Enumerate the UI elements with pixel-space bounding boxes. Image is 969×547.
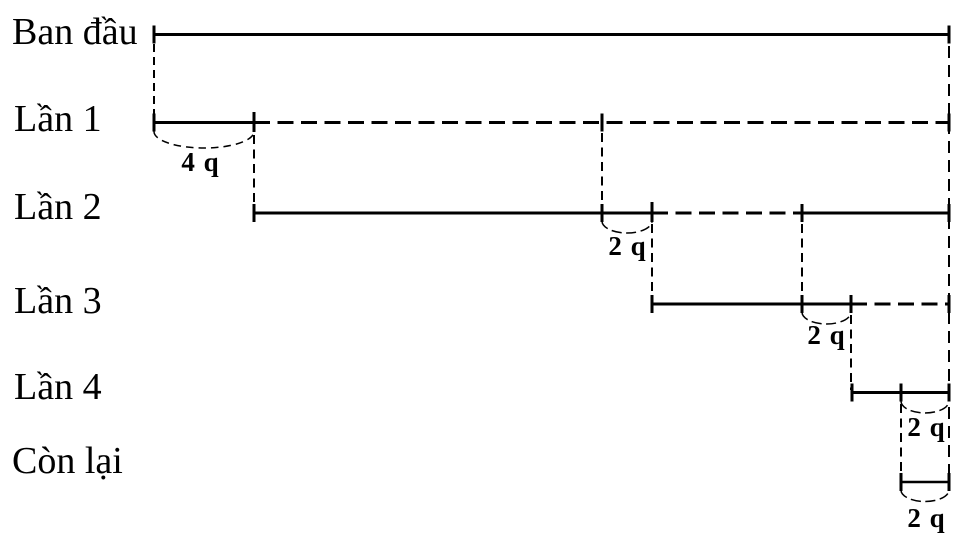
- tick Lần 1 left end: [153, 114, 156, 132]
- tick Lần 4 right end: [948, 384, 951, 402]
- bar Lần 2 dashed middle: [652, 212, 802, 215]
- dashed drop line x602 Lần 1 to Lần 2: [601, 133, 603, 204]
- svg-text:Lần 4: Lần 4: [14, 366, 102, 408]
- svg-text:Còn lại: Còn lại: [12, 440, 123, 482]
- tick Lần 2 left end: [253, 204, 256, 222]
- tick Lần 3 left end: [651, 295, 654, 313]
- tick Còn lại right end: [948, 473, 951, 491]
- bar Lần 1 dashed remainder: [254, 121, 949, 124]
- bar Lần 3 solid segment: [652, 303, 851, 306]
- tick Lần 1 right end: [948, 114, 951, 132]
- svg-text:Lần 3: Lần 3: [14, 280, 102, 322]
- tick Ban đầu right end: [948, 26, 951, 44]
- tick Lần 3 at x802: [801, 295, 804, 313]
- tick Lần 4 at x901: [900, 384, 903, 402]
- tick Lần 2 at x802: [801, 204, 804, 222]
- brace 2 q under Lần 4: [901, 401, 949, 413]
- dashed drop line x254 Lần 1 to Lần 2: [253, 135, 255, 211]
- bar Lần 2 solid segment right: [802, 212, 949, 215]
- brace 2 q under Còn lại: [901, 490, 949, 502]
- tick Lần 3 at x851: [850, 295, 853, 313]
- svg-text:2 q: 2 q: [907, 503, 944, 533]
- bar Còn lại solid segment: [901, 481, 949, 484]
- brace 2 q under Lần 3: [802, 312, 851, 324]
- svg-text:Lần 1: Lần 1: [14, 98, 102, 140]
- dashed drop line x802 Lần 2 to Lần 3: [801, 224, 803, 295]
- tick Lần 2 right end: [948, 204, 951, 222]
- bar Lần 3 dashed remainder: [851, 303, 949, 306]
- bar Ban đầu solid segment: [154, 33, 949, 36]
- bar Lần 1 solid segment 4q: [154, 121, 254, 124]
- bar Lần 4 solid segment: [852, 391, 949, 394]
- dashed drop line right x949 Ban đầu to Còn lại: [948, 46, 950, 473]
- tick Lần 2 at x602: [601, 204, 604, 222]
- svg-text:Lần 2: Lần 2: [14, 186, 102, 228]
- tick Lần 2 at x652: [651, 202, 654, 222]
- tick Ban đầu left end: [153, 26, 156, 44]
- svg-text:2 q: 2 q: [907, 412, 944, 442]
- bar Lần 2 solid segment left: [254, 212, 652, 215]
- dashed drop line left x154 Ban đầu to Lần 1: [153, 44, 155, 120]
- tick Lần 1 at x254: [253, 112, 256, 132]
- tick Lần 3 right end: [948, 295, 951, 313]
- dashed drop line x901 Lần 4 to Còn lại: [900, 404, 902, 473]
- dashed drop line x851 Lần 3 to Lần 4: [850, 315, 852, 390]
- svg-text:Ban đầu: Ban đầu: [12, 11, 138, 53]
- svg-text:2 q: 2 q: [608, 231, 645, 261]
- svg-text:2 q: 2 q: [807, 320, 844, 350]
- tick Lần 4 left end: [851, 384, 854, 402]
- tick Còn lại left end: [900, 473, 903, 491]
- brace 4 q under Lần 1: [154, 132, 254, 149]
- dashed drop line x652 Lần 2 to Lần 3: [651, 224, 653, 302]
- svg-text:4 q: 4 q: [181, 147, 218, 177]
- tick Lần 1 at x602: [601, 114, 604, 132]
- brace 2 q under Lần 2: [602, 221, 652, 233]
